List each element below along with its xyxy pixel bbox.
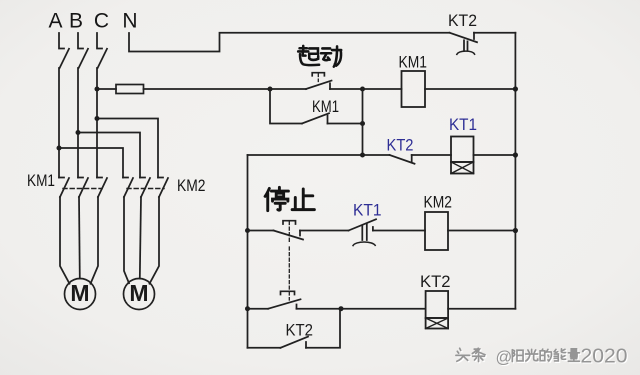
KM1 linkage dashed [63, 188, 102, 190]
wire KT2 contact to KT1 coil [412, 154, 451, 156]
coil KT1 (time relay) [451, 137, 474, 174]
node B (phase B terminal label) [69, 10, 83, 33]
wire tap phase C to KM2 bank [97, 119, 158, 178]
contactor KM2 main contact pole 2 [140, 178, 150, 198]
linked cross cap of stop lower contact [281, 291, 295, 300]
linkage dashed stop to lower contact [288, 247, 290, 289]
label 停止 (stop) [265, 187, 314, 210]
svg-text:N: N [122, 10, 137, 33]
motor M1 [65, 279, 96, 310]
node C (phase C terminal label) [94, 10, 109, 33]
svg-text:KT2: KT2 [286, 321, 314, 340]
wire left rail [247, 155, 249, 348]
contactor KM2 main contact pole 1 [123, 178, 133, 198]
svg-text:KT1: KT1 [353, 201, 382, 220]
wire tap phase B to KM2 bank [78, 133, 140, 178]
svg-text:KM1: KM1 [399, 53, 428, 72]
svg-text:A: A [48, 10, 62, 33]
contact stop linked NO (closes on stop) [268, 299, 300, 308]
wire row6 from left rail [248, 347, 281, 349]
motor M2 [124, 279, 155, 310]
junction right rail row2 [513, 86, 518, 91]
svg-text:KM1: KM1 [312, 97, 339, 116]
junction aux rejoin [360, 121, 365, 126]
junction KM1 coil node [360, 87, 365, 92]
wire phase C vertical [96, 68, 98, 178]
svg-text:M: M [70, 280, 89, 306]
wire fuse to start-button node [144, 88, 307, 90]
wire KT1 contact to KM2 coil [373, 230, 425, 232]
timer contact KT2 top (NO delayed, blade below line) [450, 33, 478, 55]
wire motor1 lead right [91, 197, 99, 284]
wire vertical row2 to row3 [362, 89, 364, 155]
junction phase C / fuse row [95, 87, 100, 92]
junction phase A tap [57, 146, 62, 151]
node A (phase A terminal label) [48, 10, 62, 33]
switch QS blade phase A [59, 33, 69, 68]
wire motor2 lead left [124, 197, 129, 283]
wire N: down, right, up, right to KT2 contact [129, 33, 450, 52]
junction row3 [360, 153, 365, 158]
wire motor1 lead left [60, 197, 70, 284]
switch QS blade phase C [97, 33, 107, 68]
label KM1 coil [399, 53, 428, 72]
switch QS blade phase B [78, 33, 88, 68]
svg-text:KM2: KM2 [177, 176, 206, 195]
svg-text:KM1: KM1 [27, 171, 55, 190]
contact KT2 NO (row3, blade below line) [390, 155, 415, 164]
junction right rail row4 [513, 228, 518, 233]
wire KT2 bottom contact up to row5 [306, 309, 340, 348]
wire to KM1 coil [363, 88, 402, 90]
watermark 头条@阳光的能量2020 [456, 344, 629, 368]
contactor KM2 main contacts label [177, 176, 206, 195]
wire KT1 coil to right rail [474, 154, 516, 156]
contactor KM1 main contact pole 1 [59, 178, 69, 198]
timer contact KT1 (NC delayed, blade above line) [349, 219, 377, 245]
pushbutton 停止 stop NC contact [274, 231, 304, 240]
KM2 linkage dashed [127, 188, 164, 190]
node N (neutral terminal label) [122, 10, 137, 33]
junction left rail row4 [245, 228, 250, 233]
wire KM1 coil to right rail [425, 88, 515, 90]
wire node to KT2 coil [341, 308, 426, 310]
junction phase B tap [76, 130, 81, 135]
junction row5 mid [339, 306, 344, 311]
wire start contact to KM1 coil node [330, 88, 363, 90]
label KT2 row3 [387, 136, 414, 155]
contactor KM2 main contact pole 3 [158, 178, 168, 198]
wire KT2 contact to right rail [474, 32, 515, 34]
junction start node left [268, 87, 273, 92]
fuse FU [116, 85, 144, 94]
svg-text:KT2: KT2 [420, 272, 451, 291]
wire motor2 lead middle [140, 197, 141, 279]
label KM2 coil [424, 193, 453, 212]
svg-text:KM2: KM2 [424, 193, 453, 212]
wire stop to KT1 contact [300, 230, 349, 232]
label KT1 contact [353, 201, 382, 220]
svg-text:KT1: KT1 [449, 115, 477, 134]
wire fuse row from phase C [97, 88, 116, 90]
wire phase A vertical [58, 68, 60, 178]
coil KM2 [425, 212, 448, 250]
wire KT2 coil to right rail corner [448, 308, 515, 310]
contactor KM1 main contacts label [27, 171, 55, 190]
pushbutton 停止 stop cap [283, 221, 296, 243]
svg-text:KT2: KT2 [448, 11, 477, 30]
label KT2 top [448, 11, 477, 30]
label KM1 aux [312, 97, 339, 116]
junction right rail row3 [513, 152, 518, 157]
label 起动 (start) [298, 46, 341, 67]
coil KM1 [402, 71, 426, 107]
wire motor1 lead middle [78, 197, 81, 279]
junction left rail row5 [245, 306, 250, 311]
svg-text:KT2: KT2 [387, 136, 414, 155]
wire row3 left to KT2 contact [248, 154, 390, 156]
wire KM2 coil to right rail [448, 230, 515, 232]
wire tap phase A to KM2 bank [59, 148, 123, 178]
svg-text:C: C [94, 10, 109, 33]
label KT2 bottom [286, 321, 314, 340]
coil KT2 (time relay) [426, 291, 449, 329]
pushbutton 起动 start NO contact [306, 81, 332, 89]
contactor KM1 main contact pole 2 [78, 178, 88, 198]
wire motor2 lead right [150, 197, 160, 284]
wire row4 left lead [248, 230, 274, 232]
svg-text:M: M [129, 280, 148, 306]
wire branch down to KM1 aux row [270, 89, 302, 124]
wire phase B vertical [77, 68, 79, 178]
contactor KM1 main contact pole 3 [97, 178, 107, 198]
pushbutton 起动 start cap [312, 73, 324, 82]
label KT1 coil [449, 115, 477, 134]
junction phase C tap [95, 116, 100, 121]
contact KT2 NO bottom [280, 337, 308, 348]
wire linked contact to node [297, 308, 342, 310]
wire right rail [514, 33, 516, 309]
svg-text:B: B [69, 10, 83, 33]
label KT2 coil [420, 272, 451, 291]
wire row5 left lead [248, 308, 269, 310]
contact KM1 auxiliary NO (self-hold) [302, 113, 329, 123]
wire KM1 aux to vertical [328, 123, 363, 125]
